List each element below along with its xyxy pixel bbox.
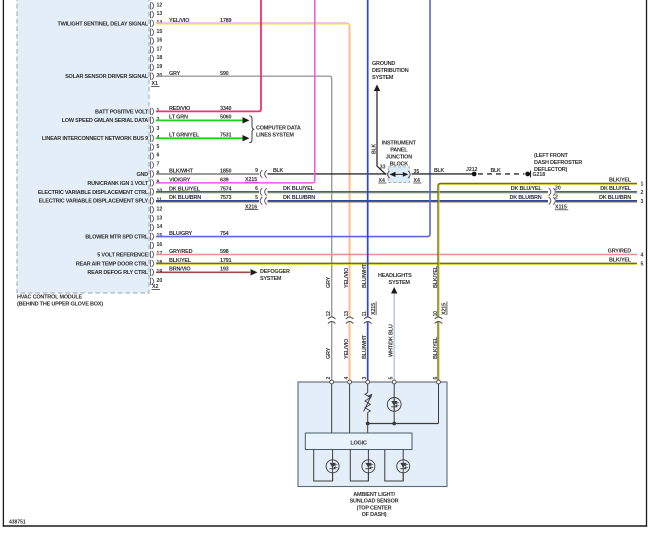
brace computer data lines system [249,116,254,143]
svg-text:AMBIENT LIGHT/: AMBIENT LIGHT/ [353,492,395,498]
svg-text:193: 193 [220,267,229,273]
sensor pin 3 entry [366,380,370,384]
internal wire pin6 down to bus [438,384,440,424]
svg-text:GRY/RED: GRY/RED [169,249,193,255]
svg-text:6: 6 [255,186,258,192]
svg-text:LOGIC: LOGIC [350,440,367,446]
inline connector on YEL/VIO drop pin 13 [348,317,350,322]
LED loop D3 left leg [350,450,368,482]
svg-text:GRY/RED: GRY/RED [608,248,632,254]
svg-text:(TOP CENTER: (TOP CENTER [357,505,392,511]
sensor label [350,492,399,518]
inline connector X115 pin 2 on DK BLU/BRN [549,197,556,205]
wire RED/VIO 3340 pin1 up off page [156,0,261,111]
svg-text:5: 5 [255,195,258,201]
svg-text:OF DASH): OF DASH) [362,512,387,518]
wire DK BLU/BRN to right edge circuit 3 [268,200,549,202]
svg-text:GRY: GRY [326,276,332,288]
svg-text:BLK/WHT: BLK/WHT [169,168,194,174]
instrument panel junction block (dashed) [388,167,409,183]
svg-text:INSTRUMENT: INSTRUMENT [382,140,417,146]
svg-text:VIO/GRY: VIO/GRY [169,177,191,183]
label left front dash defroster deflector [534,153,582,173]
svg-text:3: 3 [157,126,160,132]
photoresistor R1 [365,393,370,413]
svg-text:(BEHIND THE UPPER GLOVE BOX): (BEHIND THE UPPER GLOVE BOX) [17,302,103,308]
svg-text:20: 20 [555,186,561,192]
svg-text:5: 5 [641,261,644,267]
wire GRY 590 pin20 to sensor (node GRY) [156,76,332,382]
ground distribution system label [372,61,409,81]
svg-text:ELECTRIC VARIABLE DISPLACEMENT: ELECTRIC VARIABLE DISPLACEMENT SPLY [39,199,149,205]
svg-text:BLK/YEL: BLK/YEL [169,258,192,264]
svg-text:2: 2 [641,190,644,196]
svg-text:RED/VIO: RED/VIO [169,106,191,112]
svg-text:SYSTEM: SYSTEM [260,276,282,282]
svg-text:J212: J212 [466,167,478,173]
svg-text:BLK/YEL: BLK/YEL [433,336,439,359]
wire BLK dashed to G218 [478,173,525,175]
svg-text:7: 7 [157,162,160,168]
svg-text:WHT/DK BLU: WHT/DK BLU [389,324,395,357]
svg-text:DK BLU/YEL: DK BLU/YEL [169,186,201,192]
svg-text:7574: 7574 [220,186,233,192]
splice J212 [472,172,477,177]
svg-text:13: 13 [157,215,163,221]
connector X2 pins 1-20 [150,108,162,290]
svg-text:5060: 5060 [220,115,232,121]
page border frame left [2,0,4,527]
svg-text:BLK: BLK [434,168,444,174]
sensor pin 4 entry [348,380,352,384]
svg-text:438751: 438751 [9,520,26,526]
svg-text:DK BLU/YEL: DK BLU/YEL [511,186,543,192]
inline connector on GRY drop pin 12 [331,317,333,322]
inline connector on BLK/YEL drop pin 10 [437,317,439,322]
svg-text:DK BLU/BRN: DK BLU/BRN [599,195,631,201]
svg-text:DASH DEFROSTER: DASH DEFROSTER [534,160,582,166]
inline connector X115 pin 20 on DK BLU/YEL [549,188,556,196]
svg-text:13: 13 [344,311,350,317]
svg-text:14: 14 [157,224,163,230]
svg-text:11: 11 [362,311,368,316]
sensor pin 5 entry [392,380,396,384]
svg-text:COMPUTER DATA: COMPUTER DATA [256,126,301,132]
wire LT GRN/YEL 7531 pin4 to computer data lines [156,137,243,139]
instrument panel junction block label [382,140,417,167]
LED D4 photodiode [402,450,404,460]
svg-text:REAR AIR TEMP DOOR CTRL: REAR AIR TEMP DOOR CTRL [76,261,149,267]
svg-text:BLK/YEL: BLK/YEL [609,257,632,263]
ambient light sunload sensor box U2 [298,382,447,487]
svg-text:18: 18 [157,55,163,61]
svg-text:7531: 7531 [220,133,232,139]
ground point G218 [525,172,530,177]
sensor pin 2 entry [330,380,334,384]
internal wire pin4 to logic [349,384,351,433]
wire BLK to ground distribution (arrow up) [374,85,380,92]
svg-text:639: 639 [220,177,229,183]
svg-text:6: 6 [433,377,439,380]
svg-text:BLU/GRY: BLU/GRY [169,231,193,237]
page border frame bottom [3,525,647,527]
svg-text:3340: 3340 [220,106,232,112]
svg-text:4: 4 [641,252,644,258]
svg-text:SYSTEM: SYSTEM [372,75,394,81]
svg-text:19: 19 [157,64,163,70]
svg-text:DK BLU/BRN: DK BLU/BRN [509,195,541,201]
svg-text:598: 598 [220,249,229,255]
LED D3 photodiode [367,450,369,460]
svg-text:3: 3 [641,199,644,205]
svg-text:YEL/VIO: YEL/VIO [344,267,350,288]
svg-text:20: 20 [157,278,163,284]
svg-text:BLK/YEL: BLK/YEL [609,178,632,184]
svg-text:5: 5 [389,377,395,380]
svg-text:5: 5 [157,144,160,150]
svg-text:GRY: GRY [326,347,332,359]
svg-text:33: 33 [380,165,386,171]
svg-text:1: 1 [641,182,644,188]
page border frame right [646,0,648,527]
svg-text:BLK: BLK [273,168,283,174]
svg-text:2: 2 [326,377,332,380]
svg-text:G218: G218 [533,172,546,178]
inline connector on BLU/WHT drop pin 11 [367,317,369,322]
wire BLK/YEL 1791 pin18 to right edge circuit 5 [156,262,637,264]
logic block [305,433,412,450]
svg-text:GND: GND [136,172,148,178]
svg-text:GRY: GRY [169,71,181,77]
svg-text:(LEFT FRONT: (LEFT FRONT [534,153,568,159]
svg-text:3: 3 [362,377,368,380]
wire BLK/WHT 1850 pin8 to connector X215 [156,173,259,175]
node A junction dot (pin3 branch) [366,422,370,426]
svg-text:17: 17 [157,46,163,52]
svg-text:LT GRN: LT GRN [169,115,188,121]
wire VIO/GRY 639 pin9 up off page [156,0,315,183]
svg-text:LINES SYSTEM: LINES SYSTEM [256,132,294,138]
headlights system label [378,273,412,286]
inline connector X216 pin 5 [260,197,267,205]
wire LT GRN 5060 pin2 to computer data lines [156,119,243,121]
inline connector X216 pin 6 [260,188,267,196]
inline connector X215 pin 9 [260,170,267,178]
svg-text:10: 10 [433,311,439,317]
svg-text:ELECTRIC VARIABLE DISPLACEMENT: ELECTRIC VARIABLE DISPLACEMENT CTRL [38,190,149,196]
wire BRN/VIO 193 pin19 to defogger system [156,271,250,273]
sensor pin 6 entry [437,380,441,384]
internal wire pin2 to logic [331,384,333,433]
internal bus wire node A to pin6 leg [368,423,439,425]
svg-text:9: 9 [255,168,258,174]
svg-text:BLK: BLK [371,144,377,154]
wire DK BLU/YEL 7574 pin10 to connector X216 [156,191,259,193]
svg-text:JUNCTION: JUNCTION [386,154,413,160]
wire BLU/WHT from top of page to sensor [367,0,369,382]
node B junction dot (pin5 branch) [392,422,396,426]
svg-text:7573: 7573 [220,195,232,201]
LED loop D2 left leg [314,450,333,482]
photodiode D1 [387,398,401,412]
svg-text:SOLAR SENSOR DRIVER SIGNAL: SOLAR SENSOR DRIVER SIGNAL [65,74,149,80]
svg-text:BLK: BLK [491,168,501,174]
LED D2 photodiode [332,450,334,460]
svg-text:5 VOLT REFERENCE: 5 VOLT REFERENCE [97,252,148,258]
svg-text:1850: 1850 [220,168,232,174]
svg-text:DK BLU/YEL: DK BLU/YEL [600,186,632,192]
svg-text:15: 15 [157,29,163,35]
svg-text:REAR DEFOG RLY CTRL: REAR DEFOG RLY CTRL [87,270,148,276]
wire YEL/VIO 1789 pin14 to sensor (node YEL/VIO) [156,23,349,382]
label DEFOGGER SYSTEM [260,269,290,282]
svg-text:6: 6 [157,153,160,159]
connector X1 pins 12-20 [150,2,162,87]
svg-text:YEL/VIO: YEL/VIO [169,18,190,24]
wire WHT/DK BLU headlights arrow [391,287,397,294]
svg-text:HVAC CONTROL MODULE: HVAC CONTROL MODULE [17,295,83,301]
svg-text:LT GRN/YEL: LT GRN/YEL [169,133,200,139]
svg-text:2: 2 [555,195,558,201]
svg-text:BRN/VIO: BRN/VIO [169,267,191,273]
junction block internal bus 33 to 35 [391,173,408,175]
svg-text:DK BLU/BRN: DK BLU/BRN [283,195,315,201]
svg-text:RUN/CRANK IGN 1 VOLT: RUN/CRANK IGN 1 VOLT [87,181,148,187]
svg-text:DEFLECTOR): DEFLECTOR) [534,167,568,173]
svg-text:590: 590 [220,71,229,77]
svg-text:16: 16 [157,242,163,248]
svg-text:DISTRIBUTION: DISTRIBUTION [372,68,409,74]
internal wire pin3 through resistor to logic [367,384,369,393]
HVAC pin signal name labels [38,21,149,276]
LED loop D4 left leg [385,450,403,482]
wire BLK to instrument panel junction block [268,173,387,175]
svg-text:12: 12 [157,206,163,212]
label COMPUTER DATA LINES SYSTEM [256,126,301,139]
wire GRY/RED 598 pin17 to right edge circuit 4 [156,253,637,255]
svg-text:BLU/WHT: BLU/WHT [362,334,368,359]
HVAC control module U1 (behind the upper glove box) [17,0,149,293]
svg-text:SUNLOAD SENSOR: SUNLOAD SENSOR [350,499,399,505]
svg-text:13: 13 [157,11,163,17]
svg-text:1791: 1791 [220,258,232,264]
svg-text:LINEAR INTERCONNECT NETWORK BU: LINEAR INTERCONNECT NETWORK BUS 9 [42,136,148,142]
svg-text:HEADLIGHTS: HEADLIGHTS [378,273,412,279]
svg-text:YEL/VIO: YEL/VIO [344,338,350,359]
svg-text:16: 16 [157,38,163,44]
svg-text:DK BLU/BRN: DK BLU/BRN [169,195,201,201]
svg-text:PANEL: PANEL [390,147,408,153]
wire BLK/YEL right edge circuit 1 down to sensor (node BLK/YEL) [438,184,637,383]
internal wire pin5 through photodiode D1 [393,384,395,424]
svg-text:BLOWER MTR SPD CTRL: BLOWER MTR SPD CTRL [85,234,149,240]
svg-text:4: 4 [344,377,350,380]
wire BLK junction block to splice J212 [412,173,475,175]
svg-text:12: 12 [326,311,332,317]
svg-text:BLU/WHT: BLU/WHT [362,263,368,288]
svg-text:GROUND: GROUND [372,61,395,67]
svg-text:TWILIGHT SENTINEL DELAY SIGNAL: TWILIGHT SENTINEL DELAY SIGNAL [58,21,149,27]
HVAC control module label [17,295,103,308]
svg-text:DEFOGGER: DEFOGGER [260,269,290,275]
svg-text:754: 754 [220,231,230,237]
wire DK BLU/YEL to right edge circuit 2 [268,191,549,193]
svg-text:DK BLU/YEL: DK BLU/YEL [283,186,315,192]
junction block connector arcs [388,171,411,178]
wire DK BLU/BRN 7573 pin11 to connector X216 [156,200,259,202]
svg-text:BATT POSITIVE VOLT: BATT POSITIVE VOLT [95,109,149,115]
svg-text:SYSTEM: SYSTEM [389,280,411,286]
svg-text:12: 12 [157,2,163,8]
wire BLU/GRY 754 pin15 up off page [156,0,430,237]
svg-text:1789: 1789 [220,18,232,24]
svg-text:LOW SPEED GMLAN SERIAL DATA: LOW SPEED GMLAN SERIAL DATA [62,118,149,124]
svg-text:BLK/YEL: BLK/YEL [433,265,439,288]
